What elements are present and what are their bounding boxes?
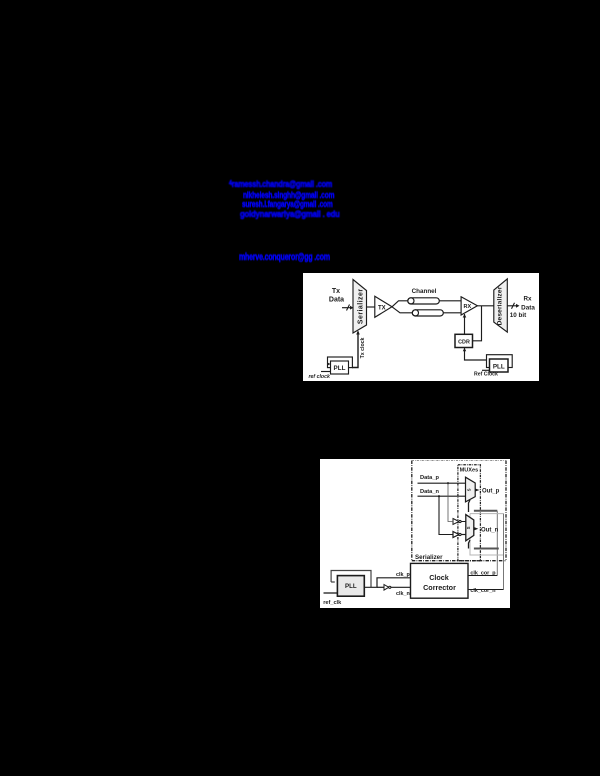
wire serializer to TX <box>367 306 375 308</box>
wire TX to channel top <box>392 300 408 306</box>
PLL2 box <box>482 359 508 372</box>
wire clk_cor_p vertical <box>496 511 498 576</box>
wire mux bottom select down <box>469 540 471 549</box>
PLL1 outer box <box>328 357 353 368</box>
svg-text:RX: RX <box>464 304 472 310</box>
svg-text:Corrector: Corrector <box>423 583 456 592</box>
svg-text:TX: TX <box>378 305 386 311</box>
clock corrector box <box>411 564 469 599</box>
svg-text:CDR: CDR <box>458 339 470 345</box>
email line 1 <box>229 179 332 190</box>
svg-text:Ref Clock: Ref Clock <box>474 371 498 377</box>
clock bar 2 <box>474 548 499 550</box>
mux top <box>466 477 476 502</box>
email line 2 <box>243 190 334 201</box>
wire clk_cor_n vertical <box>503 514 505 590</box>
PLL2 outer box <box>487 354 513 367</box>
wire clk_cor_n output <box>468 589 504 591</box>
svg-text:Serializer: Serializer <box>415 554 443 561</box>
svg-text:Tx: Tx <box>332 288 340 295</box>
wire channel top to RX <box>439 299 461 301</box>
svg-text:Serializer: Serializer <box>357 288 364 324</box>
svg-text:ref clock: ref clock <box>309 374 331 380</box>
wire ref_clk input <box>324 592 338 594</box>
wire ref clock input <box>321 362 331 371</box>
svg-text:S: S <box>467 488 472 491</box>
wire Data_p to inverter1 <box>448 483 453 521</box>
figure 1 : serial link block diagram <box>303 273 539 381</box>
wire Data_n <box>418 495 466 497</box>
clock bar 1 <box>474 510 497 512</box>
email line 4 <box>240 209 340 220</box>
svg-text:clk_n: clk_n <box>396 591 410 597</box>
email line 3 <box>242 199 333 210</box>
svg-text:MUXes: MUXes <box>460 468 479 474</box>
channel line top <box>408 297 440 303</box>
svg-text:Tx clock: Tx clock <box>360 337 366 358</box>
svg-text:Out_p: Out_p <box>482 489 500 495</box>
wire RX to deserializer <box>477 304 493 306</box>
svg-text:Data_p: Data_p <box>420 475 439 481</box>
svg-text:10 bit: 10 bit <box>510 312 527 319</box>
wire mux top output arrow <box>475 489 479 492</box>
svg-text:PLL: PLL <box>493 363 505 370</box>
wire RX bottom to CDR <box>463 314 467 336</box>
wire deserializer node down to CDR <box>473 305 482 340</box>
label Tx Data <box>329 288 344 304</box>
figure 2 : serializer internals <box>320 459 510 608</box>
wire mux top select down <box>469 500 471 512</box>
PLL box <box>337 576 364 597</box>
svg-text:clk_cor_n: clk_cor_n <box>470 588 495 594</box>
wire PLL1 to serializer (Tx clock) <box>352 330 360 367</box>
TX amp <box>375 296 392 317</box>
wire Data_n to inverter2 <box>439 496 453 534</box>
svg-text:ref_clk: ref_clk <box>323 600 342 606</box>
PLL loop wire <box>331 571 371 588</box>
channel line bottom <box>412 309 443 315</box>
wire TX to channel bottom <box>392 306 412 312</box>
PLL1 box <box>331 361 349 374</box>
svg-text:S: S <box>466 526 471 529</box>
muxes dashed box <box>458 465 481 561</box>
svg-text:clk_cor_p: clk_cor_p <box>470 571 496 577</box>
svg-text:Data: Data <box>329 296 344 303</box>
gray loop around mux bottom <box>470 514 504 555</box>
serializer dashed box <box>412 461 506 561</box>
wire mux bottom output arrow <box>474 527 479 531</box>
wire PLL2 to CDR <box>465 347 487 360</box>
wire clk_cor_p output <box>468 575 497 577</box>
svg-text:Channel: Channel <box>412 288 437 295</box>
CDR box <box>455 334 473 347</box>
wire channel bottom to RX <box>443 311 461 313</box>
wire Tx Data input <box>342 304 354 310</box>
wire clk_n with inverter <box>377 585 411 591</box>
svg-text:Deserializer: Deserializer <box>496 286 503 325</box>
svg-text:clk_p: clk_p <box>396 572 410 578</box>
wire Data_p <box>418 482 466 484</box>
mux bottom <box>466 515 474 541</box>
inverter 2 <box>453 532 466 538</box>
svg-text:Out_n: Out_n <box>481 528 499 534</box>
svg-text:Data: Data <box>521 304 535 311</box>
RX amp <box>461 296 477 314</box>
wire deserializer output <box>507 302 519 308</box>
svg-text:Clock: Clock <box>429 573 449 582</box>
deserializer <box>494 278 508 331</box>
email line 5 <box>239 252 330 263</box>
serializer <box>353 279 367 333</box>
inverter 1 <box>453 519 466 525</box>
label Rx Data 10 bit <box>510 295 536 319</box>
wire PLL to corrector clk_p <box>364 578 410 588</box>
svg-text:PLL: PLL <box>334 364 346 371</box>
svg-text:Rx: Rx <box>523 295 532 302</box>
svg-text:PLL: PLL <box>345 583 357 590</box>
svg-text:Data_n: Data_n <box>420 489 439 495</box>
